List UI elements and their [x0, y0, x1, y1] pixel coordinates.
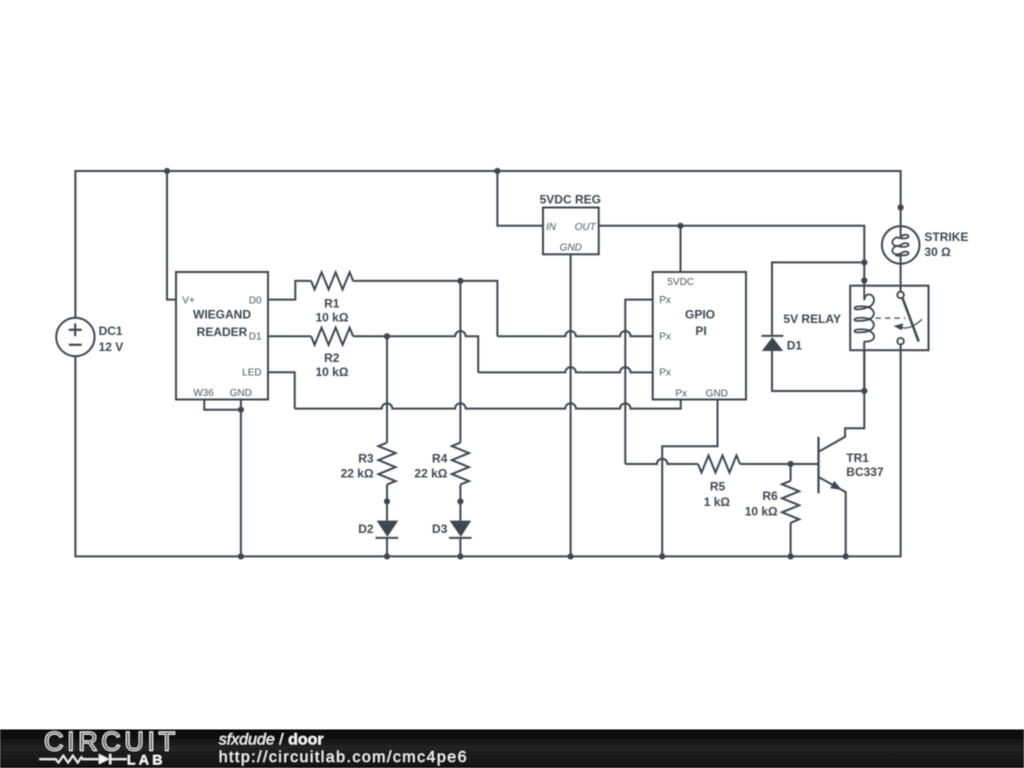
svg-text:OUT: OUT: [575, 222, 597, 233]
svg-text:R4: R4: [432, 451, 448, 465]
svg-text:W36: W36: [193, 388, 214, 399]
svg-text:DC1: DC1: [99, 324, 123, 338]
svg-text:D1: D1: [787, 339, 803, 353]
svg-text:5VDC REG: 5VDC REG: [540, 193, 601, 207]
svg-text:22 kΩ: 22 kΩ: [414, 466, 447, 480]
svg-text:10 kΩ: 10 kΩ: [316, 310, 349, 324]
svg-text:10 kΩ: 10 kΩ: [745, 505, 778, 519]
svg-text:GND: GND: [706, 388, 728, 399]
svg-text:D2: D2: [358, 522, 374, 536]
svg-text:PI: PI: [695, 324, 706, 338]
svg-text:R3: R3: [358, 451, 374, 465]
svg-text:sfxdude / door: sfxdude / door: [219, 732, 324, 749]
svg-text:10 kΩ: 10 kΩ: [316, 365, 349, 379]
svg-text:R2: R2: [324, 351, 340, 365]
svg-text:http://circuitlab.com/cmc4pe6: http://circuitlab.com/cmc4pe6: [219, 749, 468, 766]
svg-text:12 V: 12 V: [99, 340, 124, 354]
svg-text:5VDC: 5VDC: [667, 277, 694, 288]
svg-text:30 Ω: 30 Ω: [924, 245, 951, 259]
svg-text:BC337: BC337: [846, 465, 884, 479]
svg-text:D3: D3: [432, 522, 448, 536]
svg-text:R5: R5: [710, 479, 726, 493]
svg-text:R6: R6: [762, 489, 778, 503]
svg-text:5V RELAY: 5V RELAY: [783, 312, 841, 326]
svg-text:V+: V+: [182, 295, 195, 306]
svg-text:D0: D0: [249, 295, 262, 306]
svg-text:TR1: TR1: [846, 451, 869, 465]
svg-text:Px: Px: [659, 332, 671, 343]
svg-text:READER: READER: [197, 325, 248, 339]
svg-text:Px: Px: [659, 295, 671, 306]
svg-text:R1: R1: [324, 296, 340, 310]
svg-text:Px: Px: [659, 368, 671, 379]
svg-text:LAB: LAB: [127, 752, 166, 768]
svg-text:D1: D1: [249, 331, 262, 342]
svg-text:GPIO: GPIO: [685, 308, 715, 322]
svg-text:Px: Px: [675, 388, 687, 399]
svg-text:1 kΩ: 1 kΩ: [704, 495, 731, 509]
svg-text:LED: LED: [242, 368, 261, 379]
svg-text:WIEGAND: WIEGAND: [193, 308, 251, 322]
svg-text:GND: GND: [230, 388, 252, 399]
svg-text:STRIKE: STRIKE: [924, 230, 968, 244]
svg-text:22 kΩ: 22 kΩ: [341, 466, 374, 480]
svg-text:GND: GND: [560, 243, 582, 254]
svg-text:IN: IN: [546, 222, 557, 233]
